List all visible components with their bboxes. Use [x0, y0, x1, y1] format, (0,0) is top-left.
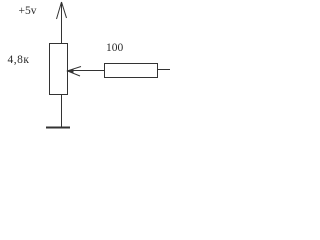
wire from R2 right edge to image edge	[158, 69, 171, 71]
resistor R1 body	[50, 44, 68, 95]
ground	[46, 127, 70, 129]
wire from R1 bottom to ground	[61, 95, 63, 128]
resistor R2 body	[105, 64, 158, 78]
svg-text:4,8к: 4,8к	[8, 54, 30, 66]
wire from wiper to R2	[70, 70, 105, 72]
power +5v arrow symbol	[57, 2, 67, 20]
svg-text:+5v: +5v	[19, 5, 37, 17]
wire from +5v to R1 top	[61, 18, 63, 44]
wiper arrow into R1	[66, 67, 81, 77]
svg-text:100: 100	[106, 42, 124, 54]
